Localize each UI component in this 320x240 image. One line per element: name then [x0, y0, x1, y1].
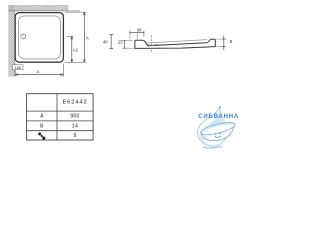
label 165 box — [12, 65, 23, 70]
wall hatch left band — [8, 5, 14, 77]
side view: dashed drain centerline — [151, 35, 153, 52]
svg-text:A: A — [86, 35, 90, 40]
svg-text:A: A — [36, 69, 40, 74]
shower tray inner rim line (plan view) — [19, 16, 61, 59]
dimension A2 extension line top — [67, 35, 74, 37]
dimension B: line and ticks — [222, 36, 226, 50]
table weight dumbbell icon — [37, 132, 46, 141]
svg-text:25: 25 — [118, 40, 123, 45]
logo drop cone shading — [203, 107, 227, 129]
wall hatch top band — [8, 5, 68, 11]
svg-text:900: 900 — [70, 114, 79, 120]
dimension 40: line and ticks — [109, 34, 113, 48]
svg-text:E62442: E62442 — [62, 99, 87, 105]
dimension 25: line and ticks — [123, 41, 127, 49]
svg-text:9: 9 — [74, 133, 77, 139]
logo water marks left — [203, 135, 207, 140]
side view: drain recess curve — [147, 44, 158, 45]
logo drop inner right shading — [222, 121, 227, 143]
svg-text:СИБВАННА: СИБВАННА — [198, 114, 239, 120]
svg-text:14: 14 — [72, 124, 78, 130]
wall face line vertical — [14, 11, 16, 77]
dimension A (bottom horizontal) line with arrows — [15, 74, 63, 76]
dimension A2 line with arrows — [71, 36, 73, 62]
dimension 25: extension lines — [122, 40, 133, 42]
dimension A (right vertical) line with arrows — [83, 12, 85, 62]
logo drop tip bead — [219, 107, 221, 109]
logo face eyes — [215, 133, 216, 134]
wall face line horizontal — [8, 10, 80, 12]
logo drop bottom inner shading — [200, 137, 225, 146]
side view: inner floor surface line — [146, 40, 207, 43]
svg-text:B: B — [230, 39, 233, 44]
side view: tray profile outline — [135, 39, 215, 48]
spec table row lines — [27, 111, 94, 131]
logo face smile — [215, 136, 222, 137]
dimension 68: line and ticks — [130, 31, 144, 35]
dimension A (bottom horizontal) extension lines — [14, 64, 16, 77]
logo bathtub rim — [200, 120, 236, 137]
shower tray outer outline (plan view) — [15, 13, 63, 63]
drain circle — [21, 34, 26, 39]
svg-text:165: 165 — [14, 65, 21, 70]
svg-text:A2: A2 — [73, 48, 79, 53]
logo bathtub body — [201, 124, 235, 140]
logo water drop outline — [198, 107, 228, 147]
spec table column divider — [56, 94, 58, 140]
svg-text:40: 40 — [103, 40, 108, 45]
svg-text:68: 68 — [137, 27, 142, 32]
dimension A (right vertical) extension lines — [65, 11, 87, 13]
spec table frame — [27, 94, 94, 140]
logo bottom arc lettering — [203, 146, 222, 148]
dimension 68: extension lines — [129, 33, 131, 39]
dimension B: extension lines — [216, 38, 226, 40]
